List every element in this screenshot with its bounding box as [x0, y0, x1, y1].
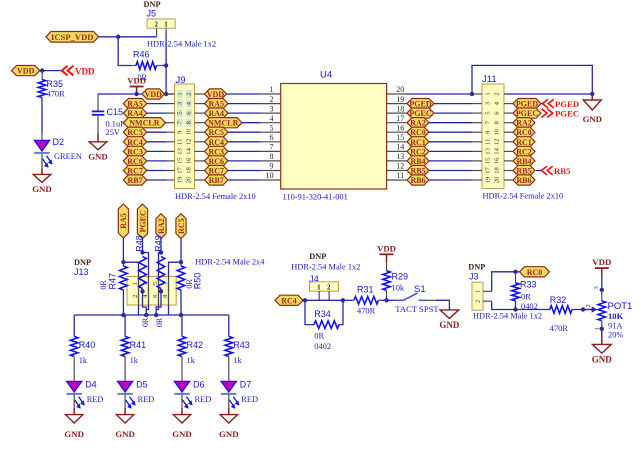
junction R31 R29 S1 [384, 298, 388, 302]
svg-text:12: 12 [494, 139, 501, 146]
svg-text:R34: R34 [314, 309, 331, 319]
wire RB5 to J11 pin 17 [429, 170, 472, 172]
svg-text:VDD: VDD [592, 257, 611, 267]
wire RC5 to J13 pin 7 [169, 262, 182, 276]
wire PGED to J11 pin 3 [434, 103, 472, 105]
svg-text:RA5: RA5 [208, 100, 224, 109]
U4 pin 18 [387, 112, 407, 114]
J9 pin 4 stub [195, 103, 205, 105]
ground after S1 [439, 310, 460, 330]
svg-text:2: 2 [132, 295, 139, 298]
svg-text:2: 2 [494, 92, 501, 95]
port RA4 right of J9 pin 6 [205, 108, 229, 118]
J13 pin 6 stub [156, 305, 158, 310]
switch S1 [387, 293, 436, 300]
port RC4 [275, 295, 303, 305]
junction RA5 node [121, 260, 125, 264]
U4 pin 5 [261, 131, 281, 133]
junction at GND drop [590, 92, 594, 96]
junction R34 left [303, 298, 307, 302]
svg-text:RB5: RB5 [554, 166, 571, 176]
J11 pin 13 stub [472, 150, 482, 152]
svg-text:GND: GND [172, 429, 192, 439]
wire C15 to ground [97, 134, 99, 142]
J11 pin 1 stub [472, 93, 482, 95]
wire VDD to R29 [386, 254, 388, 270]
wire S1 to ground [436, 300, 449, 310]
wire D5 to ground [124, 395, 126, 415]
svg-text:RB4: RB4 [410, 157, 425, 166]
wire RC4 to R31 [303, 299, 352, 301]
svg-text:ICSP_VDD: ICSP_VDD [51, 32, 94, 42]
svg-text:VDD: VDD [207, 90, 225, 99]
port RA4 left of J9 pin 5 [123, 108, 147, 118]
svg-text:0R: 0R [521, 292, 531, 301]
svg-text:5: 5 [270, 123, 274, 132]
wire D4 to ground [73, 395, 75, 415]
U4 pin 20 [387, 93, 407, 95]
wire VDD port to harness entry [40, 70, 62, 72]
resistor R35 [38, 71, 46, 141]
svg-text:RA5: RA5 [119, 213, 128, 229]
svg-text:R46: R46 [133, 50, 150, 60]
wire VDD to POT1 pin 3 [601, 268, 603, 290]
svg-text:4: 4 [270, 114, 274, 123]
svg-text:RC0: RC0 [410, 128, 426, 137]
svg-text:9: 9 [270, 162, 274, 171]
J11 pin 12 stub [504, 141, 513, 143]
wire rail to R40 [73, 315, 75, 336]
svg-text:R33: R33 [520, 279, 537, 289]
connector J3 body [472, 282, 483, 310]
port RC4 right of J9 pin 12 [205, 137, 229, 147]
wire PGEC to J13 pin 3 [143, 253, 149, 277]
svg-text:RA4: RA4 [208, 109, 224, 118]
wire RA2 down [160, 239, 162, 253]
ground at J11 [583, 100, 602, 124]
svg-text:19: 19 [176, 176, 183, 183]
port RC3 right of J9 pin 14 [205, 146, 229, 156]
svg-text:470R: 470R [357, 306, 376, 315]
svg-text:PGEC: PGEC [138, 210, 147, 232]
U4 pin 3 [261, 112, 281, 114]
wire to ground at J11 [591, 94, 593, 100]
svg-text:1: 1 [317, 283, 321, 291]
U4 pin 9 [261, 170, 281, 172]
J11 pin 3 stub [472, 103, 482, 105]
port PGED right of J11 pin 4 [513, 99, 541, 109]
potentiometer POT1 [598, 290, 606, 329]
wire rail to R43 [228, 315, 230, 336]
J3 pin 1 stub [483, 290, 492, 292]
svg-text:18: 18 [186, 167, 193, 174]
junction R49 on rail [154, 313, 158, 317]
connector J4 body [310, 282, 339, 292]
wire PGEC to J11 pin 5 [434, 112, 472, 114]
svg-text:VDD: VDD [145, 90, 163, 99]
port RC0 [520, 267, 550, 277]
J11 pin 5 stub [472, 112, 482, 114]
ground below D6 [172, 415, 192, 440]
wire POT1 to ground [601, 329, 603, 345]
U4 pin 11 [387, 179, 407, 181]
svg-text:DNP: DNP [468, 262, 485, 271]
svg-text:D2: D2 [53, 137, 65, 147]
svg-text:20: 20 [186, 176, 193, 183]
svg-text:RC4: RC4 [281, 296, 297, 305]
junction R46 right with J5 pin1 wire [164, 63, 168, 67]
power VDD above POT1 [592, 257, 611, 268]
junction J11 pin 1 [470, 92, 474, 96]
J11 pin 7 stub [472, 122, 482, 124]
junction R50 on rail [179, 313, 183, 317]
svg-text:25V: 25V [106, 128, 120, 137]
svg-text:J5: J5 [147, 9, 157, 19]
svg-text:PGEC: PGEC [409, 109, 431, 118]
wire NMCLR to U4 pin 4 [242, 122, 261, 124]
svg-text:RC4: RC4 [208, 138, 224, 147]
svg-text:1k: 1k [187, 356, 196, 365]
wire rail to R41 [124, 315, 126, 336]
J3 pin 2 stub [483, 300, 492, 302]
U4 pin 16 [387, 131, 407, 133]
led D7 [221, 381, 239, 409]
port RB6 right of J11 pin 20 [513, 175, 535, 185]
J9 pin 13 stub [167, 150, 175, 152]
svg-text:0402: 0402 [314, 342, 331, 351]
svg-text:16: 16 [396, 123, 404, 132]
svg-text:D4: D4 [85, 380, 97, 390]
port RB7 left of J9 pin 19 [123, 175, 147, 185]
J9 pin 11 stub [167, 141, 175, 143]
wire RC3 to U4 pin 7 [228, 150, 261, 152]
svg-text:2: 2 [155, 20, 159, 28]
svg-text:J11: J11 [482, 74, 497, 85]
port RB7 right of J9 pin 20 [205, 175, 229, 185]
svg-text:2: 2 [474, 300, 481, 303]
svg-text:10k: 10k [392, 283, 405, 292]
svg-text:RC5: RC5 [127, 128, 143, 137]
U4 pin 8 [261, 160, 281, 162]
junction R47 on rail [121, 313, 125, 317]
port RC3 left of J9 pin 13 [123, 146, 147, 156]
resistor R49 [156, 257, 165, 316]
svg-text:RC0: RC0 [527, 268, 543, 277]
junction R48 bottom [140, 289, 144, 293]
svg-text:20%: 20% [608, 331, 623, 340]
svg-text:RED: RED [241, 395, 258, 404]
J9 pin 3 stub [167, 103, 175, 105]
svg-text:R49: R49 [153, 235, 163, 252]
svg-text:RA2: RA2 [410, 119, 426, 128]
J9 pin 16 stub [195, 160, 205, 162]
chip U4 body [281, 84, 387, 190]
wire RA5 to J13 pin 1 [123, 262, 138, 276]
svg-text:13: 13 [176, 147, 183, 154]
svg-text:VDD: VDD [75, 67, 95, 77]
port RB5 right of U4 pin 12 [407, 165, 429, 175]
wire RB4 to J11 pin 15 [429, 160, 472, 162]
port RC0 right of U4 pin 16 [407, 127, 429, 137]
svg-text:3: 3 [270, 104, 274, 113]
wire LED rail [74, 314, 229, 316]
wire RA4 to U4 pin 3 [228, 112, 261, 114]
svg-text:0R: 0R [99, 280, 108, 290]
svg-text:VDD: VDD [17, 67, 35, 76]
svg-text:RB6: RB6 [410, 176, 425, 185]
svg-text:DNP: DNP [309, 252, 326, 261]
svg-text:10: 10 [266, 171, 274, 180]
J9 pin 15 stub [167, 160, 175, 162]
J9 pin 5 stub [167, 112, 175, 114]
connector J13 pin lines [139, 277, 169, 306]
svg-text:VDD: VDD [377, 243, 396, 253]
harness entry PGEC chevrons [542, 109, 547, 118]
led D5 [117, 381, 135, 409]
port RC1 right of U4 pin 15 [407, 137, 429, 147]
svg-text:D7: D7 [240, 380, 252, 390]
svg-text:R29: R29 [392, 272, 409, 282]
resistor R50 [177, 262, 185, 315]
wire U4 pin 20 to J11 pin 1 [407, 93, 472, 95]
U4 pin 10 [261, 179, 281, 181]
wire R41 to D5 [124, 357, 126, 382]
svg-text:RA4: RA4 [127, 109, 143, 118]
J11 pin 11 stub [472, 141, 482, 143]
wire R43 to D7 [228, 357, 230, 382]
J9 pin 18 stub [195, 170, 205, 172]
svg-text:R42: R42 [187, 340, 204, 350]
wire NMCLR port to J9 pin 7 [166, 122, 167, 124]
port RA5 left of J9 pin 3 [123, 99, 147, 109]
svg-text:RC5: RC5 [177, 218, 186, 234]
junction POT1 pin 3 [600, 288, 604, 292]
junction R49 bottom [159, 289, 163, 293]
svg-text:7: 7 [270, 143, 274, 152]
port PGEC right of U4 pin 18 [407, 108, 434, 118]
svg-text:RB5: RB5 [410, 167, 425, 176]
svg-text:18: 18 [396, 104, 404, 113]
junction RC5 node [179, 260, 183, 264]
wire J3 pin2 to R32 [492, 301, 550, 309]
port RA2 right of U4 pin 17 [407, 118, 429, 128]
resistor R31 [352, 297, 387, 305]
port NMCLR right of J9 pin 8 [205, 118, 243, 128]
wire junction down to R46 [118, 37, 131, 66]
resistor R46 [131, 62, 166, 70]
svg-text:10: 10 [186, 128, 193, 135]
svg-text:R40: R40 [79, 340, 96, 350]
svg-text:16: 16 [494, 157, 501, 164]
svg-text:GND: GND [115, 429, 135, 439]
port RC0 right of J11 pin 10 [513, 127, 535, 137]
wire D2 to ground [41, 154, 43, 175]
svg-text:0R: 0R [155, 317, 164, 327]
svg-text:0R: 0R [141, 317, 150, 327]
svg-text:14: 14 [494, 147, 501, 154]
connector J9 body [175, 84, 195, 189]
svg-text:RC1: RC1 [516, 138, 532, 147]
harness entry RB5 chevrons [542, 166, 547, 175]
wire RC5 down [180, 239, 182, 263]
wire RC7 port to J9 pin 17 [147, 170, 167, 172]
svg-text:470R: 470R [550, 324, 569, 333]
svg-text:RC1: RC1 [410, 138, 426, 147]
J9 pin 14 stub [195, 150, 205, 152]
capacitor C15 [92, 94, 104, 134]
svg-text:RB6: RB6 [516, 176, 531, 185]
J4 pin 2 stub [328, 291, 330, 300]
svg-text:1: 1 [164, 20, 168, 28]
J11 pin 15 stub [472, 160, 482, 162]
U4 pin 1 [261, 93, 281, 95]
wire PGEC down [142, 239, 144, 253]
svg-text:6: 6 [270, 133, 274, 142]
port RA2 right of J11 pin 8 [513, 118, 535, 128]
port RC1 right of J11 pin 12 [513, 137, 535, 147]
wire RA4 port to J9 pin 5 [147, 112, 167, 114]
wire RC5 port to J9 pin 9 [147, 131, 167, 133]
U4 pin 14 [387, 150, 407, 152]
J11 pin 20 stub [504, 179, 513, 181]
svg-text:8: 8 [270, 152, 274, 161]
ground below D2 [32, 174, 52, 194]
svg-text:2: 2 [186, 92, 193, 95]
svg-text:R41: R41 [130, 340, 147, 350]
J9 pin 7 stub [167, 122, 175, 124]
svg-text:RC3: RC3 [208, 147, 224, 156]
wire RB7 to U4 pin 10 [228, 179, 261, 181]
svg-text:11: 11 [485, 139, 492, 145]
svg-text:17: 17 [176, 167, 183, 174]
svg-text:0402: 0402 [521, 302, 538, 311]
U4 pin 4 [261, 122, 281, 124]
power VDD symbol above J9 pin1 [127, 76, 146, 87]
wire VDD to U4 pin 1 [227, 93, 261, 95]
svg-text:RED: RED [87, 395, 104, 404]
wire R42 to D6 [181, 357, 183, 382]
svg-text:17: 17 [485, 167, 492, 174]
wire J11 pin1 loop over the top [472, 65, 592, 94]
svg-text:GND: GND [583, 114, 602, 124]
J9 pin 12 stub [195, 141, 205, 143]
VDD symbol stub [136, 87, 138, 95]
junction RC0 R33 [513, 270, 517, 274]
port NMCLR left of J9 pin 7 [123, 118, 165, 128]
svg-text:GND: GND [64, 429, 84, 439]
resistor R42 [178, 336, 186, 356]
port RA2 above J13 [156, 214, 166, 239]
wire RC1 to J11 pin 11 [429, 141, 472, 143]
svg-text:RA2: RA2 [157, 218, 166, 234]
svg-text:20: 20 [494, 176, 501, 183]
svg-text:11: 11 [176, 139, 183, 145]
U4 pin 19 [387, 103, 407, 105]
svg-text:NMCLR: NMCLR [129, 119, 159, 128]
J9 pin 9 stub [167, 131, 175, 133]
svg-text:470R: 470R [47, 89, 66, 98]
resistor R47 [120, 262, 128, 315]
J13 pin 4 stub [146, 305, 148, 310]
svg-text:VDD: VDD [127, 76, 146, 86]
svg-text:R35: R35 [47, 79, 64, 89]
port RB4 right of U4 pin 13 [407, 156, 429, 166]
port RC5 right of J9 pin 10 [205, 127, 229, 137]
svg-text:D5: D5 [136, 380, 148, 390]
U4 pin 6 [261, 141, 281, 143]
svg-text:U4: U4 [320, 70, 332, 81]
svg-text:RED: RED [138, 395, 155, 404]
wire RC0 to J11 pin 9 [429, 131, 472, 133]
svg-text:1: 1 [132, 282, 139, 285]
U4 pin 12 [387, 170, 407, 172]
J11 pin 8 stub [504, 122, 513, 124]
port RB6 right of U4 pin 11 [407, 175, 429, 185]
svg-text:RC5: RC5 [208, 128, 224, 137]
J11 pin 4 stub [504, 103, 513, 105]
ground below D4 [64, 415, 84, 440]
port RC7 right of J9 pin 18 [205, 165, 229, 175]
svg-text:C15: C15 [107, 107, 124, 117]
svg-text:HDR-2.54 Female 2x10: HDR-2.54 Female 2x10 [483, 192, 564, 201]
J13 pin 8 stub to rail [168, 305, 170, 315]
svg-text:DNP: DNP [144, 0, 161, 9]
svg-text:RC2: RC2 [516, 147, 532, 156]
connector J13 pin numbers [132, 281, 169, 298]
svg-text:J3: J3 [469, 271, 479, 281]
port PGED right of U4 pin 19 [407, 99, 434, 109]
J11 pin 9 stub [472, 131, 482, 133]
svg-text:2: 2 [270, 95, 274, 104]
svg-text:RC3: RC3 [127, 147, 143, 156]
port RC2 right of U4 pin 14 [407, 146, 429, 156]
svg-text:1: 1 [474, 290, 481, 293]
svg-text:J13: J13 [74, 267, 89, 277]
svg-text:18: 18 [494, 167, 501, 174]
J9 pin 2 stub [195, 93, 205, 95]
svg-text:91A: 91A [608, 321, 622, 330]
junction VDD stub on rail [134, 92, 138, 96]
svg-text:15: 15 [485, 157, 492, 164]
wire RB6 to J11 pin 19 [429, 179, 472, 181]
svg-text:20: 20 [396, 85, 404, 94]
svg-text:1k: 1k [130, 356, 139, 365]
svg-text:12: 12 [186, 139, 193, 146]
svg-text:1k: 1k [233, 356, 242, 365]
J9 pin 19 stub [167, 179, 175, 181]
J11 pin 14 stub [504, 150, 513, 152]
port VDD right of J9 pin 2 [205, 89, 227, 99]
svg-text:J9: J9 [176, 75, 186, 86]
wire ICSP_VDD to J5 pin 2 [99, 36, 157, 38]
power VDD above R29 [377, 243, 396, 254]
wire RC7 to U4 pin 9 [228, 170, 261, 172]
led D4 [67, 381, 85, 409]
J11 pin 19 stub [472, 179, 482, 181]
resistor R29 [383, 271, 391, 301]
wiper arrow into POT1 [583, 306, 597, 313]
svg-text:1: 1 [176, 92, 183, 95]
svg-text:PGED: PGED [555, 99, 579, 109]
wire RA5 port to J9 pin 3 [147, 103, 167, 105]
wire RB5 port to chevron [536, 170, 542, 172]
port RC7 left of J9 pin 17 [123, 165, 147, 175]
wire RA2 to J11 pin 7 [429, 122, 472, 124]
port RB5 right of J11 pin 18 [513, 165, 535, 175]
svg-text:RA5: RA5 [127, 100, 143, 109]
wire rail to R42 [181, 315, 183, 336]
svg-text:R31: R31 [357, 285, 374, 295]
